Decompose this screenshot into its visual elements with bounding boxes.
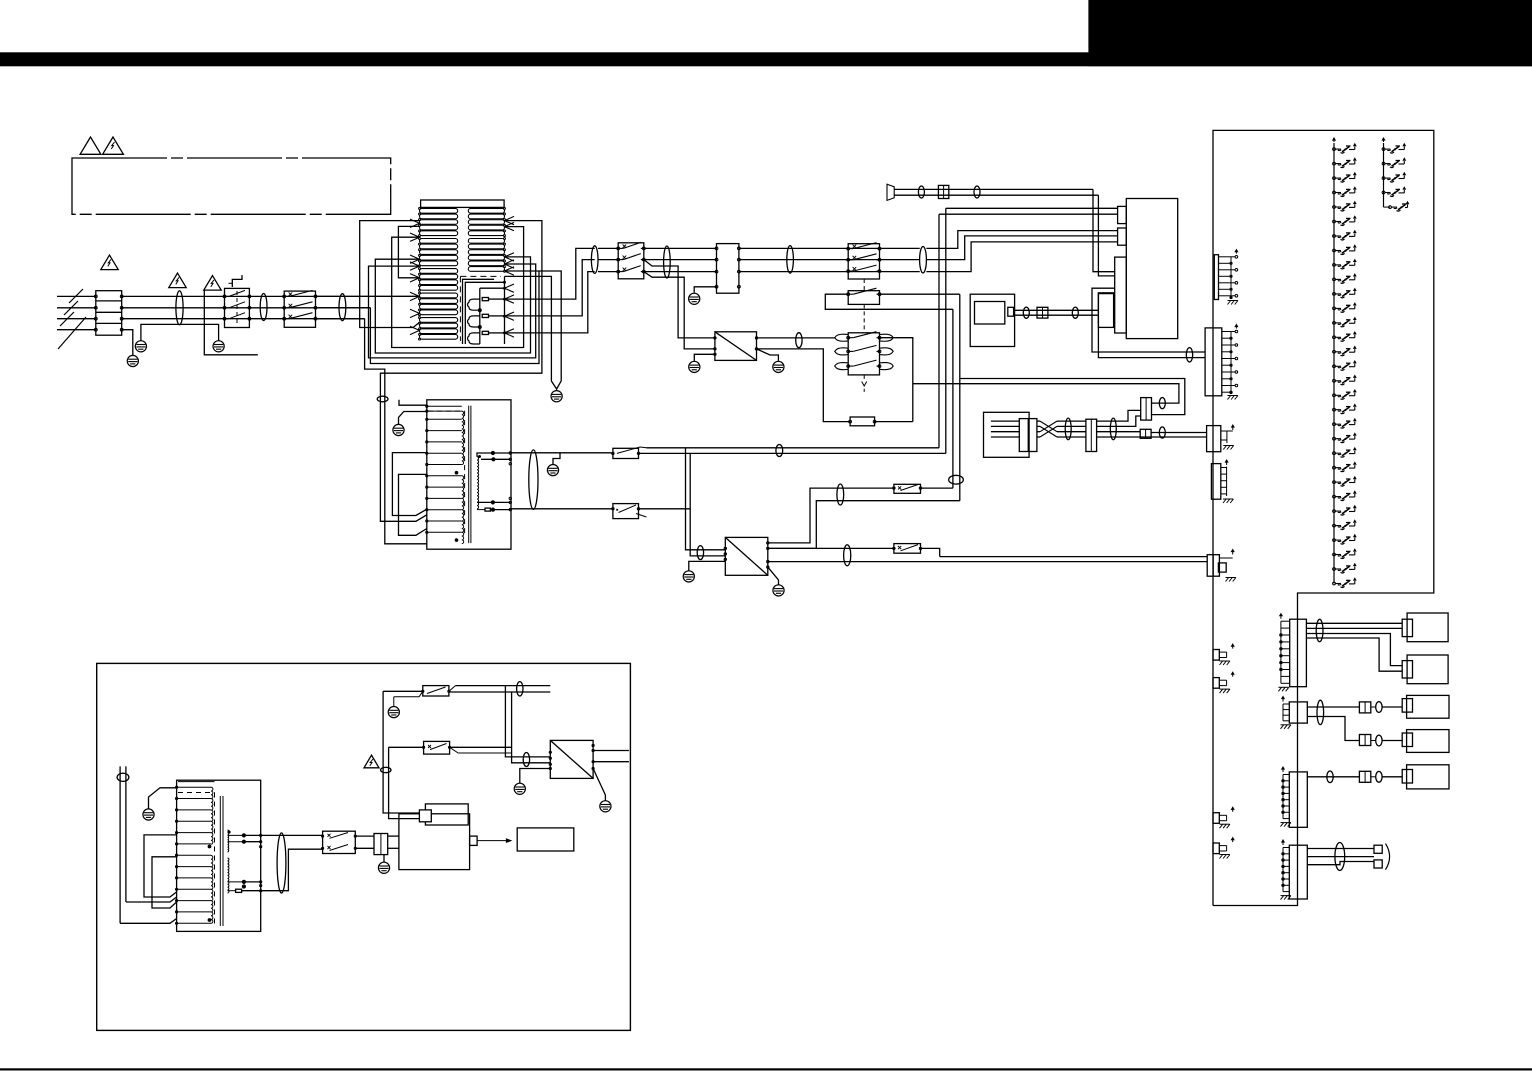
connector CN16 (cable bundle)	[1289, 845, 1307, 899]
ferrite ellipse PSU1 out	[796, 333, 802, 348]
bundle wires with crossover	[1037, 420, 1040, 422]
ferrite ellipse PSU3 input	[523, 753, 529, 767]
PCB connector box D	[1098, 293, 1113, 328]
CN1 ground wire	[694, 287, 716, 293]
middle bus vertical v1	[938, 214, 940, 448]
CN16 wires to bundle	[1307, 848, 1374, 850]
PSU3 ground right	[593, 769, 605, 801]
relay driver column left items	[1333, 148, 1336, 151]
K11 lever and ground branch	[419, 691, 423, 697]
ferrite ellipse sec1	[591, 246, 598, 274]
T1 winding dot 1	[478, 308, 482, 312]
cable break slashes on input	[69, 289, 83, 303]
relay contacts K3 3-pole	[848, 244, 879, 279]
ferrite ellipse on bus pair	[949, 475, 964, 484]
wire L3 relay segment	[316, 318, 365, 320]
T1 surround U-loop	[398, 226, 419, 277]
wire pair from relay K7 to E5	[940, 556, 1207, 558]
E3 arrow	[1232, 426, 1234, 431]
T1 surround ring W1	[392, 227, 524, 348]
PSU1 output2 to resistor	[757, 349, 851, 422]
CN11 wire upper to M3	[1307, 706, 1359, 708]
staircase up to connector CN2	[1122, 410, 1141, 421]
connector CN11	[1289, 702, 1307, 723]
outer ring to T2 feeder	[380, 221, 542, 522]
buzzer BZ1 horn	[887, 184, 894, 200]
relay contacts K2 3-pole	[618, 243, 644, 279]
T3 winding polarity dots	[208, 845, 212, 849]
wire L4 to ground	[122, 330, 133, 355]
E4 arrow	[1226, 461, 1228, 466]
ground link wire	[141, 324, 219, 340]
PSU3 outputs right	[593, 750, 629, 752]
K11 wire left	[383, 690, 423, 692]
K7 right wire	[639, 508, 691, 510]
M5 tab	[1402, 770, 1412, 784]
unit box M5	[1407, 765, 1449, 789]
wire line4 to board edge	[1140, 436, 1206, 438]
ferrite ellipse MOD1 a	[1023, 307, 1029, 318]
contactor right wire down to resistor	[880, 338, 913, 422]
K4 dashed link	[863, 304, 865, 332]
relay K11 box inset	[423, 686, 449, 696]
T1 shield ground V wire b	[505, 276, 557, 389]
E5 side box	[1218, 563, 1226, 572]
warning note box dash-dot border	[72, 158, 391, 214]
T1 fuse F1	[482, 298, 488, 301]
middle bus vertical v2	[945, 208, 947, 453]
PSU3 ground left	[520, 769, 551, 784]
ferrite ellipse on inset feeder pair	[381, 767, 391, 772]
T1 tap chevrons left	[410, 219, 420, 223]
AC input wire L2	[57, 307, 96, 309]
T1 tap chevrons right	[505, 216, 515, 220]
E2 arrow	[1235, 325, 1237, 329]
ferrite ellipse sec2	[664, 246, 671, 278]
ferrite ellipse before tall connector	[1186, 348, 1192, 362]
ground leader line under breaker	[204, 290, 257, 355]
T2 core solid lines	[468, 406, 470, 543]
bundle terminal blocks	[1374, 845, 1382, 853]
transformer T1 primary winding left column	[420, 208, 458, 213]
transformer T2 shield box	[427, 400, 511, 549]
warning triangle electric shock	[103, 137, 124, 154]
ferrite ellipse T3 output	[277, 833, 286, 893]
operation unit connector	[1019, 419, 1037, 452]
T1 secondary terminal circles	[504, 207, 506, 209]
T3 dashed top shield line	[178, 781, 215, 783]
connector inline buzzer	[938, 185, 948, 198]
board edge connector E1	[1214, 255, 1218, 300]
T2 primary polarity dots	[455, 471, 459, 475]
T2 left tap wires nested	[392, 453, 426, 516]
ground PSU1 right	[773, 361, 784, 372]
T1 fuse F2	[482, 314, 488, 317]
CN14 single wire to M5	[1307, 776, 1359, 778]
relay contacts K1 3-pole	[284, 291, 315, 327]
ferrite ellipse sec4	[920, 247, 927, 273]
MOD2 tab right	[470, 836, 478, 845]
T2 secondary polarity dot	[478, 455, 481, 458]
T1 surround chamfer wire	[360, 221, 420, 328]
E2 chassis ground	[1229, 391, 1232, 394]
ground below CN20	[383, 855, 385, 862]
K6 lever and long wire	[617, 447, 640, 453]
M2 tab	[1402, 661, 1412, 678]
inline connector CN12	[1359, 702, 1370, 713]
T1 tertiary winding 2	[468, 316, 480, 327]
ground input L4	[127, 355, 138, 366]
E5 chassis ground	[1226, 578, 1229, 582]
T2 primary winding ruffle upper	[462, 411, 464, 464]
T2 output ground branch	[553, 453, 560, 465]
PCB connector box A	[1118, 206, 1127, 223]
E1 comb pins	[1230, 257, 1232, 298]
K5 dashed link with arrow	[863, 375, 865, 382]
ground T1 shield	[556, 389, 558, 391]
warning triangle at breaker	[204, 276, 221, 291]
K9 step down to E5 line	[921, 548, 940, 556]
relay K8 box	[894, 484, 921, 493]
CN14 pin comb	[1282, 775, 1284, 819]
ferrite ellipse CN12	[1376, 702, 1382, 713]
M1 tab	[1402, 619, 1412, 636]
T1 primary terminal circles	[419, 207, 421, 209]
power supply PSU1 diagonal box	[715, 332, 757, 361]
edge ground cluster 4	[1213, 843, 1219, 854]
inline connector CN20 inset	[374, 834, 388, 855]
K3 dashed link	[863, 279, 865, 291]
relay K7 box	[613, 504, 639, 519]
inline connector CN15	[1359, 771, 1370, 782]
edge ground cluster 1	[1213, 650, 1219, 661]
T1 fuse F3	[482, 331, 488, 334]
ferrite ellipse on K6 line	[776, 445, 783, 457]
K4 right wire	[880, 293, 960, 295]
ferrite ellipse CN2	[1159, 398, 1165, 409]
wire L2 relay segment	[316, 307, 371, 309]
feeder pair down to PSU2	[686, 448, 726, 550]
E1 chassis ground	[1229, 296, 1232, 299]
MOD1 pair wires to board	[1014, 309, 1099, 311]
header black block top-right	[1088, 0, 1532, 66]
motor unit box M1	[1407, 613, 1448, 642]
E1 arrow	[1235, 250, 1237, 254]
wire L1 relay to T1 region	[316, 295, 420, 297]
CN11 wire lower stepped to M4	[1307, 717, 1359, 741]
ferrite ellipse buzzer 2	[974, 186, 980, 198]
inset feeder pair with ellipse	[119, 766, 121, 923]
E4 chassis ground	[1223, 499, 1226, 503]
wires K2 to CN1	[644, 247, 717, 249]
breaker handle symbol	[232, 275, 242, 287]
header black bar full width	[0, 52, 1532, 66]
ferrite ellipse K9 input	[844, 545, 851, 566]
connector C pair down to E2	[1092, 288, 1188, 352]
power supply PSU3 diagonal box inset	[550, 740, 593, 778]
T2 output pair to relays	[510, 452, 613, 454]
AC input wire L4 neutral	[57, 329, 96, 331]
ferrite ellipse CN15	[1376, 771, 1382, 782]
T1 surround ring W2	[375, 257, 530, 353]
T3 fuse small	[236, 889, 242, 892]
T2 secondary winding ruffle	[477, 457, 479, 509]
M4 tab	[1402, 733, 1412, 747]
connector CN2	[1141, 398, 1152, 421]
cable bundle bracket	[1386, 844, 1390, 870]
ferrite ellipse sec3	[787, 246, 794, 274]
branch wire down to PSU1 in1	[644, 260, 715, 338]
power supply PSU2 diagonal box	[725, 537, 768, 575]
bundle wires after connector	[1097, 420, 1122, 422]
relay driver column right bottom item	[1384, 206, 1391, 208]
T1 tertiary winding 1	[468, 299, 480, 310]
bottom rule	[0, 1068, 1532, 1070]
ferrite ellipse inset feeder	[117, 773, 129, 781]
CN10 pin comb	[1280, 621, 1282, 683]
K11 output pair	[449, 686, 456, 692]
warning triangle inset	[364, 755, 379, 768]
T2 secondary output wires lower	[491, 500, 495, 504]
inset detail box border	[97, 663, 631, 1030]
module MOD1 outer box	[970, 294, 1014, 346]
connector inline MOD1	[1037, 307, 1048, 318]
ferrite ellipse T2 output	[529, 450, 538, 509]
K11 feed pair verticals	[383, 691, 419, 813]
wire PSU2 to K9	[768, 547, 894, 549]
ferrite ellipse input 3	[339, 294, 346, 321]
module MOD1 inner box	[975, 302, 1005, 325]
T1 secondary output 2	[505, 260, 595, 316]
circuit breaker CB1	[225, 288, 250, 327]
K8 right wire	[921, 487, 953, 489]
PSU1 output1 to contactor	[757, 337, 835, 339]
T3 secondary outputs upper	[228, 834, 244, 836]
ground PSU1 left	[689, 361, 700, 372]
T2 secondary top wire	[477, 453, 488, 457]
ferrite ellipse input 2	[260, 294, 267, 321]
relay K6 box	[613, 448, 639, 458]
MOD2 left tab	[419, 810, 431, 822]
PSU2 ground left	[689, 561, 726, 570]
T3 secondary winding ruffle	[228, 830, 229, 852]
T2 top terminal wires and ground	[399, 400, 427, 405]
PSU2 lower line to board edge	[768, 561, 1207, 563]
ferrite ellipse above T2 on feeder pair	[377, 396, 388, 402]
T1 winding dot 2	[478, 325, 482, 329]
CN10 output wires	[1306, 622, 1402, 624]
relay K4 single pole	[848, 291, 879, 305]
T2 core dashed	[428, 410, 465, 412]
wires K10 to CN20	[355, 835, 374, 837]
connector CN10 (4-wire to M1 M2)	[1290, 619, 1307, 687]
module MOD2 upper box	[425, 804, 468, 825]
PSU1 ground right wire	[757, 349, 779, 361]
relay K9 box	[894, 544, 921, 554]
K11 pair tee down to PSU3	[505, 686, 550, 757]
edge ground cluster 2	[1213, 678, 1219, 689]
T3 core solid lines	[219, 796, 221, 926]
ground right of link	[213, 341, 224, 352]
connector CN3	[1140, 429, 1151, 438]
relay K12 box inset	[424, 741, 450, 754]
operation unit internal wires	[991, 420, 1019, 422]
T1 right bus vertical with terminals	[504, 276, 506, 344]
board edge connector E2	[1205, 328, 1222, 396]
E4 pins	[1226, 467, 1228, 497]
T3 left nested tap wires	[144, 835, 177, 897]
wire L3 TB1 to corner	[122, 318, 365, 320]
label box inset	[517, 828, 574, 851]
ferrite ellipse CN14a	[1327, 771, 1333, 783]
ferrite ellipse input 1	[176, 291, 183, 325]
relay K10 box inset	[323, 831, 356, 853]
wires box A from bus	[939, 213, 1118, 215]
control PCB main box	[1126, 199, 1177, 339]
input L2 wrap ring	[370, 271, 539, 364]
input L3 wrap to T2 feeder	[365, 319, 427, 544]
T3 secondary outputs lower	[228, 881, 244, 883]
resistor R1	[850, 417, 875, 426]
buzzer pair drop into connector C	[1093, 189, 1115, 271]
ferrite ellipse CN11	[1317, 700, 1324, 724]
PCB connector box C tall	[1115, 257, 1127, 333]
ferrite ellipse bundle a	[1065, 418, 1071, 440]
board edge connector E3	[1207, 426, 1221, 452]
E3 pins	[1221, 430, 1227, 432]
board edge connector E4	[1211, 464, 1220, 500]
connector CN14	[1289, 772, 1307, 827]
resistor right wire	[875, 421, 913, 423]
ground at CN1	[689, 293, 700, 304]
transformer T1 top yoke	[421, 200, 505, 207]
warning triangle plain	[80, 137, 101, 154]
wire L1 TB1 to T1	[122, 295, 420, 297]
main line 2 step up to board	[926, 236, 1117, 260]
AC input wire L3	[57, 318, 96, 320]
AC input wire L1	[57, 295, 96, 297]
ferrite ellipse CN3	[1159, 427, 1165, 438]
T3 core dashed	[178, 792, 215, 794]
ferrite ellipse CN13	[1376, 735, 1382, 746]
contactor K5 3-pole with arc chutes	[848, 333, 879, 375]
M3 tab	[1402, 699, 1412, 713]
T3 primary winding ruffle lower	[211, 856, 213, 924]
transformer T1 secondary winding right column	[468, 208, 504, 213]
PSU2 ground right	[768, 567, 779, 584]
ferrite ellipse bundle b	[1110, 418, 1116, 440]
motor unit box M2	[1407, 655, 1448, 684]
K11 contact lever	[427, 687, 446, 694]
relay driver column right bus	[1383, 143, 1385, 207]
connector inline bundle	[1086, 419, 1097, 451]
wires CN20 to module	[388, 835, 399, 837]
wire CN3 to board edge connector	[1151, 432, 1207, 434]
edge ground cluster 3	[1213, 813, 1219, 824]
T3 primary terminals and taps	[176, 786, 178, 788]
main board outline L-shaped	[1213, 130, 1434, 905]
T1 tertiary bus	[479, 288, 481, 344]
wire L2 TB1 to corner	[122, 307, 371, 309]
PSU2 out2 up to line2	[768, 501, 960, 549]
wires T1sec to relay K2	[598, 247, 618, 249]
main line 1 step up to board	[926, 231, 1117, 249]
T1 shield ground V wire a	[539, 271, 561, 389]
inset feeder bottoms to T3	[120, 919, 177, 924]
long wire pair to board: upper	[960, 379, 1185, 415]
ground on K11 lever	[388, 707, 399, 718]
arrow to label box	[477, 840, 508, 842]
T3 primary winding ruffle upper	[211, 787, 213, 844]
T1 core dashed boundary	[460, 275, 501, 277]
middle bus vertical v4	[959, 294, 961, 501]
operation unit box	[984, 412, 1030, 457]
relay driver column right items	[1382, 148, 1385, 151]
ferrite ellipse K11 out	[517, 682, 523, 696]
T1 secondary output 3	[505, 272, 595, 333]
connector CN1	[717, 244, 739, 294]
E5 arrow	[1232, 550, 1234, 555]
ferrite ellipse CN16 big	[1335, 843, 1345, 871]
module MOD2 box inset	[399, 814, 470, 870]
middle bus vertical v3	[952, 309, 954, 488]
T1 tertiary winding 3	[468, 333, 480, 344]
T2 fuse small	[485, 508, 490, 511]
buzzer wires	[894, 188, 1093, 190]
E3 chassis ground	[1223, 446, 1226, 450]
T2 primary winding ruffle lower	[462, 476, 464, 544]
PSU1 ground left wire	[694, 354, 715, 361]
T1 shield line 2	[465, 282, 504, 344]
warning triangle mid chain	[169, 273, 186, 288]
CN16 pin comb	[1282, 848, 1284, 892]
warning triangle near input	[101, 255, 118, 270]
wires CN1 to K3	[739, 247, 920, 249]
ferrite ellipse MOD1 b	[1072, 307, 1078, 318]
T3 output lines through ellipse	[261, 834, 323, 836]
T2 secondary output wires upper	[491, 451, 495, 455]
K4 left loop wire	[825, 294, 953, 309]
ground T2 shield	[393, 424, 404, 435]
inline connector CN13	[1359, 735, 1370, 746]
MOD1 right tab	[1008, 307, 1014, 316]
ferrite ellipse buzzer 1	[918, 186, 924, 198]
ground left of link	[135, 341, 146, 352]
K12 wire left	[389, 746, 424, 748]
relay driver column left bus	[1333, 143, 1335, 583]
board edge connector E5	[1207, 555, 1219, 577]
main line 3 step up to board	[926, 242, 1117, 272]
CN11 pin comb	[1282, 704, 1284, 721]
ferrite ellipse PSU2 input	[697, 546, 703, 560]
T1 surround ring W3	[369, 264, 536, 358]
PCB connector box B	[1118, 228, 1127, 245]
T2 primary terminals and taps	[426, 405, 428, 407]
K12 output wire	[450, 746, 512, 748]
unit box M3	[1407, 695, 1449, 718]
transformer T3 shield box	[177, 780, 261, 931]
ferrite ellipse CN10	[1316, 619, 1323, 641]
ferrite ellipse K8 input	[837, 484, 844, 505]
terminal block TB1 input	[96, 291, 122, 336]
long wire pair to board: lower	[913, 384, 1179, 403]
T1 secondary output 1	[505, 248, 595, 299]
T1 shield line 1	[463, 279, 495, 344]
PSU2 out1 up to K8 line	[768, 488, 894, 543]
unit box M4	[1407, 730, 1449, 753]
branch wire down to PSU1 in2	[644, 272, 715, 349]
T3 ground top left	[149, 788, 177, 809]
